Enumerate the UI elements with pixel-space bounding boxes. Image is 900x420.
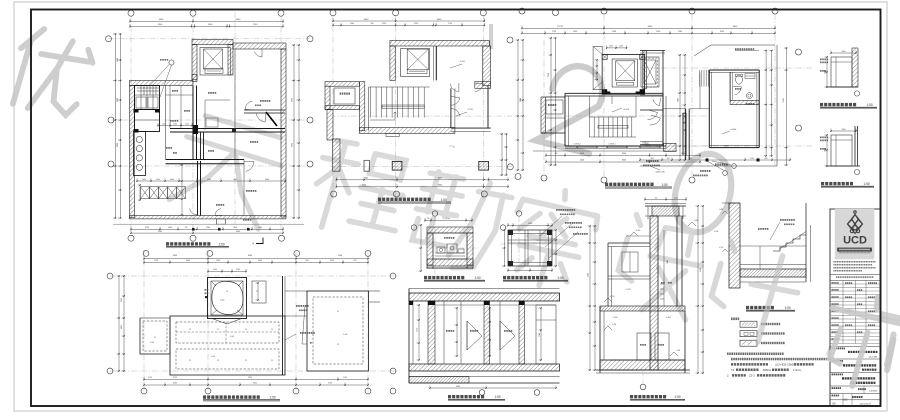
plan P5 machine room blob bbox=[212, 281, 243, 314]
plan P1 upper corridor wall bbox=[170, 128, 285, 130]
section 3-3 caption bbox=[746, 306, 774, 309]
svg-text:25: 25 bbox=[271, 329, 273, 331]
plan P2 bottom wall bbox=[360, 128, 455, 134]
detail R2 right jamb thin bbox=[854, 126, 856, 166]
svg-text:1730: 1730 bbox=[552, 31, 556, 33]
svg-text:2600: 2600 bbox=[117, 98, 119, 102]
plan P2 bottom dim chains bbox=[336, 179, 508, 181]
svg-text:25: 25 bbox=[217, 329, 219, 331]
detail R1 bubble bbox=[854, 91, 859, 96]
detail R1 left leader texts bbox=[820, 59, 828, 61]
plan P4 right grid bubbles bbox=[796, 49, 802, 55]
svg-text:3640: 3640 bbox=[456, 386, 460, 388]
plan P1 room detail lines right part bbox=[234, 49, 236, 160]
svg-text:1150: 1150 bbox=[750, 158, 754, 160]
svg-text:(LCA-825-C060): (LCA-825-C060) bbox=[775, 363, 794, 367]
dim column left of P3 bbox=[550, 38, 552, 165]
plan P2 right wall bbox=[483, 46, 491, 86]
plan P1 bottom dim chains bbox=[131, 228, 283, 230]
svg-text:1000: 1000 bbox=[667, 260, 669, 264]
svg-text:2050: 2050 bbox=[121, 325, 123, 329]
detail A left bubble bbox=[411, 225, 416, 230]
plan P5 machine room left annotations bbox=[205, 289, 209, 291]
plan P4 grid centerlines bbox=[640, 67, 812, 69]
svg-text:2-00934: 2-00934 bbox=[869, 391, 878, 393]
plan P3 window mullions bbox=[576, 146, 578, 148]
title block outer box bbox=[830, 209, 881, 406]
plan P1 grid bubble B bbox=[190, 10, 196, 16]
svg-text:-1.750: -1.750 bbox=[467, 109, 474, 111]
section 4-4 top slab hatched band bbox=[409, 293, 560, 301]
svg-text:-1.000: -1.000 bbox=[211, 356, 215, 358]
svg-text:3750: 3750 bbox=[173, 377, 177, 379]
svg-text:2021-05-27: 2021-05-27 bbox=[860, 403, 872, 405]
plan P5 machine room top dims bbox=[208, 271, 246, 273]
plan P3 shaft top dims bbox=[607, 47, 627, 49]
notes line 3 bbox=[731, 363, 768, 366]
section 2-2 mid floor slab bbox=[600, 306, 685, 311]
watermark glyph cheng bbox=[304, 136, 415, 247]
watermark glyph cha bbox=[499, 179, 604, 296]
svg-text:2250: 2250 bbox=[382, 23, 386, 25]
plan P1 left part top wall bbox=[130, 81, 194, 86]
section 2-2 level markers bbox=[630, 232, 638, 236]
plan P1 elevator machine room walls bbox=[192, 40, 233, 45]
detail R2 caption bbox=[821, 182, 853, 185]
svg-text:1:50: 1:50 bbox=[441, 198, 447, 202]
plan P4 bottom dim chain bbox=[640, 159, 790, 161]
svg-text:1200: 1200 bbox=[162, 123, 166, 125]
signature table verticals bbox=[842, 281, 844, 344]
section 2-2 upper left block bbox=[608, 242, 650, 244]
plan P1 door leaf diagonal bbox=[266, 112, 277, 126]
svg-text:UCD: UCD bbox=[843, 235, 867, 247]
svg-text:5400: 5400 bbox=[588, 273, 590, 277]
section 2-2 top dim bbox=[645, 199, 686, 201]
svg-text:1750: 1750 bbox=[148, 377, 152, 379]
svg-text:C1919-1: C1919-1 bbox=[642, 142, 649, 144]
plan P5 bottom-left step outline bbox=[140, 353, 170, 355]
plan P2 left annex walls bbox=[325, 82, 360, 87]
plan P4 ground lines bbox=[640, 165, 777, 167]
detail R1 caption bbox=[820, 103, 856, 106]
section 2-2 shaft ladder rungs bbox=[660, 283, 664, 285]
svg-text:-1.000: -1.000 bbox=[230, 336, 234, 338]
plan P1 internal dim line bbox=[137, 180, 285, 182]
watermark glyph you bbox=[6, 24, 98, 122]
watermark glyph shi bbox=[814, 282, 900, 393]
legend item 2 symbol bbox=[740, 331, 757, 337]
plan P5 caption bbox=[203, 395, 260, 398]
plan P5 central block outline bbox=[170, 316, 285, 375]
svg-text:-0.450: -0.450 bbox=[719, 209, 723, 211]
plan P2 stair rail bbox=[382, 105, 424, 108]
svg-text:2600: 2600 bbox=[186, 260, 190, 262]
detail B left bubble bbox=[500, 225, 505, 230]
svg-text:1000: 1000 bbox=[842, 129, 846, 131]
plan P3 shaft cross bbox=[616, 61, 635, 81]
svg-text:7550: 7550 bbox=[700, 268, 702, 272]
svg-text:1000: 1000 bbox=[170, 179, 174, 181]
svg-text:2580: 2580 bbox=[207, 179, 211, 181]
svg-text:5140: 5140 bbox=[338, 255, 342, 257]
plan P1 top wall right segment bbox=[233, 43, 286, 49]
svg-text:1420: 1420 bbox=[330, 260, 334, 262]
section 2-2 shaft left wall hatched bbox=[650, 216, 658, 370]
svg-text:06-1946: 06-1946 bbox=[869, 357, 878, 359]
plan P1 bottom wall bbox=[130, 216, 287, 219]
svg-text:4500: 4500 bbox=[580, 153, 584, 155]
svg-text:3600: 3600 bbox=[117, 143, 119, 147]
svg-text:1750: 1750 bbox=[448, 23, 452, 25]
plan P3 right wall column bbox=[682, 113, 684, 155]
detail R1 hatched jamb bbox=[852, 48, 858, 87]
notes line 1 bbox=[727, 353, 784, 356]
plan P3 canopy dashed bbox=[645, 58, 658, 87]
plan P1 fixtures circles bbox=[136, 136, 142, 142]
svg-text:12B4.7-1W: 12B4.7-1W bbox=[656, 172, 665, 174]
detail B caption bbox=[503, 276, 547, 279]
plan P2 bottom grid bubbles bbox=[331, 191, 337, 197]
plan P3 left appendage bbox=[541, 97, 546, 133]
plan P1 door arcs bbox=[244, 162, 254, 172]
project name block 1 bbox=[830, 346, 881, 348]
svg-text:6300: 6300 bbox=[438, 185, 442, 187]
svg-text:6300: 6300 bbox=[253, 383, 257, 385]
plan P4 left annex walls bbox=[640, 50, 665, 52]
section 2-2 lower rooms bbox=[637, 333, 651, 360]
plan P3 shaft corner columns bbox=[602, 54, 607, 59]
legend item 3 symbol bbox=[740, 340, 757, 346]
plan P5 right block outline bbox=[307, 291, 369, 371]
svg-text:25: 25 bbox=[245, 360, 247, 362]
svg-text:360: 360 bbox=[651, 158, 654, 160]
plan P1 bottom tab and ground line bbox=[216, 219, 225, 224]
plan P2 stair arrow bbox=[370, 112, 395, 120]
plan P3 ground line bbox=[533, 150, 677, 152]
section 3-3 stair steps bbox=[773, 235, 806, 251]
plan P5 small top rect bbox=[252, 281, 266, 303]
plan P5 top grid bubbles bbox=[143, 251, 149, 257]
plan P1 left grid bubble row bbox=[106, 36, 112, 42]
section 4-4 interior walls bbox=[428, 301, 435, 364]
plan P2 double door bbox=[450, 83, 459, 92]
section 3-3 room label bbox=[758, 228, 768, 230]
svg-text:2250: 2250 bbox=[414, 23, 418, 25]
svg-text:900: 900 bbox=[667, 158, 670, 160]
watermark digit 2a bbox=[536, 60, 612, 156]
plan P2 shaft left wall bbox=[390, 46, 395, 80]
plan P2 plaza columns bbox=[392, 161, 402, 170]
svg-text:25: 25 bbox=[245, 329, 247, 331]
plan P4 toilet bbox=[736, 75, 743, 84]
plan P1 right grid bubbles bbox=[307, 36, 313, 42]
plan P5 machine room corner braces bbox=[211, 281, 216, 286]
plan P1 right dim column bbox=[293, 45, 295, 218]
banner caption line bbox=[839, 252, 871, 253]
plan P1 machine rect bbox=[205, 69, 223, 74]
section 2-2 lower block walls bbox=[599, 306, 601, 373]
section 4-4 vertical dim columns bbox=[418, 305, 420, 360]
svg-text:250: 250 bbox=[427, 218, 430, 220]
detail B corner columns bbox=[508, 230, 513, 235]
plan P5 right bubble bbox=[390, 273, 396, 279]
plan P5 mid vertical wall bbox=[282, 276, 284, 375]
svg-text:1:50: 1:50 bbox=[675, 395, 681, 399]
plan P4 courtyard lines bbox=[663, 108, 686, 110]
section 3-3 left levels bbox=[722, 211, 728, 214]
section 4-4 bottom dim bbox=[430, 387, 556, 389]
plan P5 left dim column bbox=[118, 276, 120, 371]
legend title bbox=[731, 318, 739, 321]
svg-text:500: 500 bbox=[555, 153, 558, 155]
detail A caption bbox=[424, 276, 464, 279]
title block banner bar bbox=[837, 248, 872, 252]
svg-text:-1.550: -1.550 bbox=[719, 247, 723, 249]
svg-text:1200: 1200 bbox=[185, 123, 189, 125]
svg-text:5250: 5250 bbox=[248, 377, 252, 379]
svg-text:1900: 1900 bbox=[206, 227, 210, 229]
detail R2 body bbox=[831, 135, 852, 166]
detail A grid bubble top bbox=[432, 211, 437, 216]
plan P3 shaft inner bbox=[612, 59, 637, 87]
section 3-3 left wall hatched bbox=[729, 203, 740, 288]
detail R2 left leader texts bbox=[820, 137, 828, 139]
svg-text:1150: 1150 bbox=[674, 197, 678, 199]
svg-text:-5.400: -5.400 bbox=[613, 317, 618, 319]
svg-text:7000: 7000 bbox=[678, 98, 680, 102]
plan P1 grid centerlines bbox=[108, 38, 310, 40]
svg-text:470: 470 bbox=[354, 260, 357, 262]
svg-text:1:50: 1:50 bbox=[864, 182, 870, 186]
plan P5 left dashed room bbox=[140, 318, 170, 354]
svg-text:2250: 2250 bbox=[121, 298, 123, 302]
plan P4 mid wall bbox=[685, 109, 687, 160]
section 2-2 shaft interior lines bbox=[657, 216, 659, 306]
section 2-2 top capital bbox=[652, 206, 679, 216]
svg-text:1:50: 1:50 bbox=[270, 396, 276, 400]
watermark glyph kan bbox=[404, 166, 514, 279]
svg-text:4500: 4500 bbox=[173, 383, 177, 385]
plan P3 shaft machine bar bbox=[617, 82, 634, 85]
section 2-2 right dim column bbox=[697, 206, 699, 373]
svg-text:25: 25 bbox=[256, 291, 258, 293]
project name block 2 bbox=[830, 358, 881, 360]
plan P2 caption bbox=[378, 198, 431, 201]
svg-text:1630: 1630 bbox=[573, 31, 577, 33]
svg-text:-5.400: -5.400 bbox=[612, 324, 616, 326]
plan P5 machine room bbox=[208, 278, 247, 319]
svg-text:1000: 1000 bbox=[609, 46, 613, 48]
plan P3 bottom dim chains bbox=[546, 155, 700, 157]
svg-text:1900: 1900 bbox=[233, 227, 237, 229]
svg-text:-1.700: -1.700 bbox=[459, 61, 466, 63]
plan P5 bottom grid bubbles bbox=[141, 388, 147, 394]
UCD diamond logo icon bbox=[848, 211, 863, 234]
plan P5 bottom dim chains bbox=[144, 379, 368, 381]
svg-text:2.: 2. bbox=[727, 374, 729, 378]
svg-text:1:50: 1:50 bbox=[475, 276, 481, 280]
plan P3 bottom grid bubbles bbox=[541, 175, 547, 181]
section 4-4 door triangles bbox=[467, 321, 482, 350]
svg-text:ZZ-3: ZZ-3 bbox=[749, 374, 755, 378]
plan P2 top grid bubbles bbox=[330, 10, 336, 16]
svg-text:2760: 2760 bbox=[328, 383, 332, 385]
svg-text:-1.000: -1.000 bbox=[343, 334, 347, 336]
plan P3 shaft outer bbox=[602, 54, 644, 94]
svg-text:25: 25 bbox=[154, 337, 156, 339]
svg-text:-1.000: -1.000 bbox=[714, 231, 718, 233]
svg-text:2200: 2200 bbox=[825, 148, 827, 152]
svg-text:1:50: 1:50 bbox=[867, 103, 873, 107]
section 2-2 bottom bubble bbox=[640, 384, 646, 390]
detail A hatched walls bbox=[427, 227, 473, 233]
plan P1 left wall bbox=[130, 86, 135, 218]
svg-text:1750: 1750 bbox=[154, 260, 158, 262]
legend item 1 label bbox=[761, 323, 780, 325]
svg-text:3940: 3940 bbox=[720, 31, 724, 33]
svg-text:1960: 1960 bbox=[656, 31, 660, 33]
svg-text:1940: 1940 bbox=[678, 31, 682, 33]
plan P2 grid centerlines bbox=[330, 115, 512, 117]
plan P3 caption bbox=[605, 183, 654, 186]
svg-text:4500: 4500 bbox=[158, 231, 162, 233]
plan P3 annotation cluster bottom right bbox=[646, 160, 659, 162]
svg-text:150: 150 bbox=[655, 197, 658, 199]
plan P3 P4 shared top dim chains bbox=[522, 27, 775, 29]
detail R1 body bbox=[831, 57, 852, 87]
plan P3 grid centerlines bbox=[545, 115, 710, 117]
svg-text:150: 150 bbox=[185, 227, 188, 229]
plan P4 bathroom partition bbox=[730, 100, 759, 104]
plan P4 right dim columns bbox=[765, 51, 767, 156]
plan P3 right hatch strip bbox=[643, 51, 647, 89]
svg-text:1.0m/s.: 1.0m/s. bbox=[793, 368, 802, 372]
svg-text:2160: 2160 bbox=[236, 269, 240, 271]
svg-text:1980: 1980 bbox=[612, 31, 616, 33]
section 4-4 right shaft bbox=[536, 305, 556, 364]
detail B top dims bbox=[508, 225, 552, 227]
detail A bottom dim bbox=[427, 267, 473, 269]
signature table bbox=[830, 280, 881, 282]
title block logo panel bbox=[835, 209, 875, 259]
plan P2 stair treads bbox=[370, 87, 372, 118]
plan P2 bottom tab bbox=[386, 133, 399, 136]
section cut mark 4 bbox=[256, 238, 263, 244]
svg-text:3600: 3600 bbox=[292, 143, 294, 147]
svg-text:2700: 2700 bbox=[539, 333, 541, 337]
svg-text:2160: 2160 bbox=[619, 46, 623, 48]
svg-text:1:50: 1:50 bbox=[785, 306, 791, 310]
svg-text:25: 25 bbox=[337, 311, 339, 313]
svg-text:4500: 4500 bbox=[173, 255, 177, 257]
plan P1 grid bubble A bbox=[128, 10, 134, 16]
detail A inner box bbox=[433, 233, 467, 259]
plan P2 shaft bbox=[401, 49, 430, 77]
plan P1 machine room inner box bbox=[200, 48, 231, 76]
plan P1 stair room cluster bbox=[135, 86, 160, 110]
svg-text:6300: 6300 bbox=[248, 255, 252, 257]
svg-text:-1.550: -1.550 bbox=[150, 342, 154, 344]
plan P1 crossed storage boxes bbox=[141, 187, 150, 199]
legend item 3 label bbox=[761, 342, 785, 344]
svg-text:825KG,: 825KG, bbox=[763, 368, 772, 372]
scale and number block bbox=[830, 385, 881, 387]
svg-text:1450: 1450 bbox=[258, 260, 262, 262]
plan P3 interior lines bbox=[589, 96, 591, 117]
plan P2 right top bubble bbox=[507, 37, 513, 43]
svg-text:+-0.000: +-0.000 bbox=[730, 129, 736, 131]
svg-text:C1919-2: C1919-2 bbox=[574, 144, 581, 146]
svg-text:3640: 3640 bbox=[520, 98, 522, 102]
svg-text:1240: 1240 bbox=[173, 123, 177, 125]
plan P2 shaft right walls bbox=[435, 46, 437, 80]
svg-text:1000: 1000 bbox=[168, 227, 172, 229]
dim column between P3 and P4 bbox=[679, 55, 681, 160]
section 3-3 top edge bbox=[722, 202, 740, 204]
detail B beams bbox=[508, 239, 552, 241]
plan P2 top dim chains bbox=[333, 20, 484, 22]
detail R1 top dim bbox=[831, 52, 856, 54]
svg-text:7550: 7550 bbox=[783, 98, 785, 102]
detail B leader lines to notes bbox=[540, 216, 562, 236]
svg-text:2125: 2125 bbox=[417, 328, 419, 332]
svg-text:-1.750: -1.750 bbox=[610, 296, 615, 298]
plan P5 connection stub right bbox=[369, 290, 381, 292]
section 2-2 left dim column bbox=[589, 226, 591, 370]
svg-text:6300: 6300 bbox=[236, 231, 240, 233]
plan P1 caption bbox=[166, 242, 210, 245]
plan P3 stair mid rail bbox=[598, 126, 628, 129]
detail A pit machines bbox=[437, 247, 445, 253]
svg-text:4250: 4250 bbox=[145, 227, 149, 229]
svg-text:6300: 6300 bbox=[622, 160, 626, 162]
plan P4 sink bbox=[746, 93, 752, 99]
svg-text:4500: 4500 bbox=[362, 185, 366, 187]
plan P5 top dim chains bbox=[144, 258, 368, 260]
svg-text:5140: 5140 bbox=[343, 377, 347, 379]
svg-text:1900: 1900 bbox=[216, 260, 220, 262]
plan P5 grid centerlines bbox=[110, 275, 400, 277]
plan P2 right room bbox=[450, 88, 452, 128]
section 4-4 bottom slab bbox=[409, 364, 560, 371]
plan P5 central dashed ceiling grid bbox=[176, 322, 279, 343]
plan P2 stair left wall bbox=[360, 82, 365, 131]
svg-text:-1.400: -1.400 bbox=[666, 317, 671, 319]
plan P4 top right note bbox=[735, 48, 754, 50]
plan P1 bottom grid bubbles bbox=[128, 235, 134, 241]
watermark glyph shi overlay on title block bbox=[814, 287, 900, 398]
plan P3 lower block walls bbox=[564, 93, 566, 146]
svg-text:15720: 15720 bbox=[557, 26, 564, 28]
svg-text:7000: 7000 bbox=[688, 158, 692, 160]
section 4-4 bottom bubbles bbox=[479, 390, 485, 396]
legend item 1 symbol bbox=[740, 321, 757, 327]
plan P4 bathroom fittings bbox=[745, 74, 755, 79]
plan P5 leader note bbox=[300, 332, 315, 334]
watermark glyph she bbox=[610, 214, 710, 322]
svg-text:1:50: 1:50 bbox=[662, 183, 668, 187]
watermark glyph tian bbox=[164, 107, 290, 231]
svg-text:1:50: 1:50 bbox=[558, 276, 564, 280]
plan P1 fixture chamber bbox=[134, 132, 146, 176]
plan P1 hoistway cross bbox=[204, 49, 223, 69]
svg-text:600: 600 bbox=[765, 158, 768, 160]
section 2-2 more level markers bbox=[688, 222, 696, 226]
svg-text:1000: 1000 bbox=[142, 179, 146, 181]
section 4-4 caption bbox=[448, 395, 484, 398]
svg-text:1500: 1500 bbox=[258, 227, 262, 229]
